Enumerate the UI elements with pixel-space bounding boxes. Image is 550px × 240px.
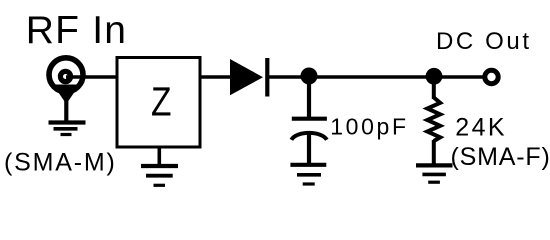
svg-text:RF In: RF In [26, 9, 127, 52]
impedance block Z [117, 58, 200, 148]
connector J1 shell-to-ground funnel [53, 85, 80, 105]
svg-text:(SMA-F): (SMA-F) [451, 143, 550, 171]
ground G2 [141, 166, 178, 185]
svg-text:(SMA-M): (SMA-M) [4, 149, 117, 177]
svg-text:DC Out: DC Out [436, 28, 532, 55]
wire capacitor to ground [307, 134, 311, 164]
wire connector to Z box [66, 75, 117, 79]
capacitor C1 top plate [292, 117, 327, 121]
node B junction dot [426, 68, 443, 85]
ground G4 [416, 165, 453, 182]
diode D1 cathode bar [265, 58, 269, 97]
diode D1 anode triangle [230, 59, 263, 95]
connector J1 SMA-M outer shell [49, 58, 83, 92]
wire Z box to ground [158, 147, 162, 165]
ground G3 [290, 165, 326, 184]
ground G1 [49, 123, 86, 135]
wire diode to node A [267, 75, 309, 79]
wire node A to capacitor [307, 77, 311, 118]
svg-text:Z: Z [151, 79, 172, 125]
wire Z box to diode [200, 75, 231, 79]
wire connector to ground [64, 100, 68, 122]
wire node B to resistor [432, 77, 436, 99]
terminal DC Out open circle [485, 70, 498, 83]
svg-text:24K: 24K [455, 114, 507, 142]
svg-text:100pF: 100pF [330, 114, 408, 140]
connector J1 center pin [60, 71, 70, 81]
capacitor C1 curved bottom plate [291, 133, 326, 140]
node A junction dot [301, 68, 318, 85]
wire node B to DC Out terminal [434, 75, 484, 79]
wire resistor to ground [432, 140, 436, 164]
wire node A to node B [309, 75, 434, 79]
resistor R1 zigzag [427, 98, 440, 142]
